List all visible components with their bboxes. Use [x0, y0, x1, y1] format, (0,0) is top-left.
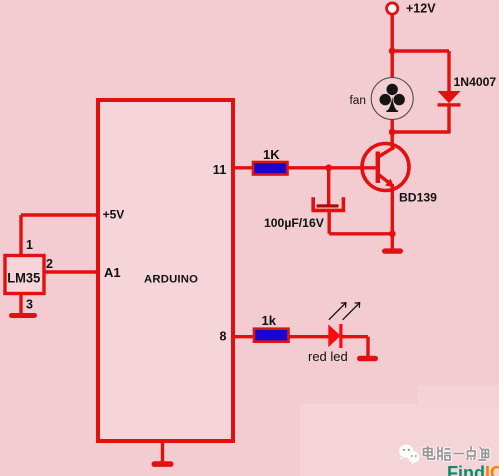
svg-text:11: 11: [213, 163, 227, 177]
svg-text:ARDUINO: ARDUINO: [144, 274, 198, 286]
svg-text:3: 3: [26, 298, 33, 312]
svg-text:1N4007: 1N4007: [454, 75, 497, 89]
svg-text:1k: 1k: [262, 313, 277, 328]
svg-text:BD139: BD139: [399, 191, 437, 205]
svg-text:+5V: +5V: [103, 208, 125, 222]
svg-text:1K: 1K: [263, 147, 280, 162]
svg-text:8: 8: [220, 330, 227, 344]
svg-text:red led: red led: [308, 349, 348, 364]
svg-text:2: 2: [46, 257, 53, 271]
svg-text:A1: A1: [104, 265, 121, 280]
svg-text:fan: fan: [350, 95, 367, 107]
svg-text:FindIC: FindIC: [447, 463, 499, 476]
svg-text:1: 1: [26, 238, 33, 252]
svg-text:+12V: +12V: [406, 2, 436, 16]
svg-text:LM35: LM35: [7, 271, 40, 286]
svg-text:100µF/16V: 100µF/16V: [264, 216, 325, 230]
